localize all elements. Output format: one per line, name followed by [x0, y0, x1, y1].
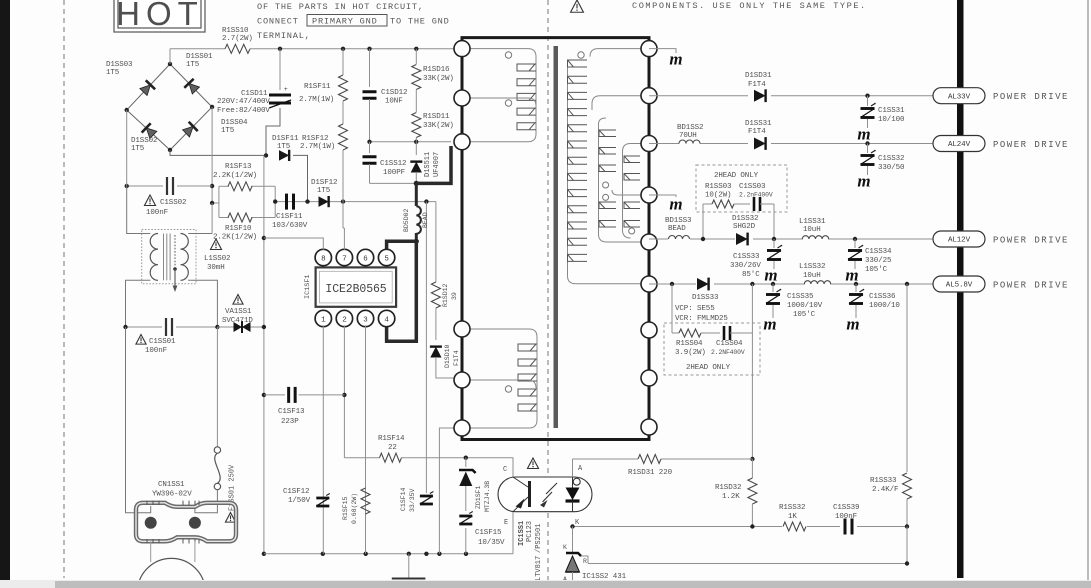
- secondary winding main: [568, 49, 650, 284]
- resistor R1SF12: [339, 124, 348, 150]
- secondary tap 195 wire: [612, 190, 649, 195]
- svg-text:R1SF15: R1SF15: [342, 496, 349, 520]
- resistor R1SS33: [903, 473, 912, 527]
- wire opto A up: [573, 459, 639, 477]
- choke arrow: [173, 235, 178, 292]
- wire sec top gnd: [649, 49, 676, 53]
- svg-text:D1SS32: D1SS32: [732, 215, 758, 223]
- label C1SF12: [283, 488, 311, 505]
- svg-text:2.2K(1/2W): 2.2K(1/2W): [213, 172, 257, 180]
- wire C1SS34: [854, 239, 856, 248]
- capacitor C1SS33: [767, 245, 782, 260]
- node drain hook: [414, 239, 419, 244]
- svg-text:2HEAD ONLY: 2HEAD ONLY: [686, 364, 731, 372]
- ground C1SS31: [857, 125, 870, 144]
- svg-text:6: 6: [363, 255, 368, 263]
- svg-text:D1SS02: D1SS02: [131, 137, 157, 145]
- svg-text:E: E: [504, 519, 508, 527]
- wire pin2 corner: [344, 457, 379, 459]
- wire AL33V rail: [649, 95, 936, 97]
- svg-text:OF THE PARTS IN HOT CIRCUIT,: OF THE PARTS IN HOT CIRCUIT,: [257, 2, 424, 12]
- transformer core: [554, 46, 559, 428]
- label F1SS01: [225, 464, 236, 522]
- svg-text:1000/10: 1000/10: [869, 302, 900, 310]
- svg-text:CONNECT: CONNECT: [257, 17, 299, 27]
- ground C1SS33: [764, 266, 777, 285]
- primary winding main: [462, 49, 536, 142]
- label R1SD31: [628, 469, 673, 477]
- warning triangle top center: [571, 0, 584, 12]
- wire C1SD12 top: [369, 49, 371, 87]
- label R1SF10: [213, 225, 257, 242]
- label R1SS04: [675, 340, 706, 357]
- svg-text:m: m: [857, 125, 870, 144]
- opto pin labels: [503, 465, 583, 527]
- svg-text:10NF: 10NF: [385, 98, 403, 106]
- svg-text:CN1SS1: CN1SS1: [158, 481, 185, 489]
- svg-text:R1SD16: R1SD16: [423, 66, 450, 74]
- svg-text:D1SS04: D1SS04: [221, 119, 248, 127]
- svg-text:SHG2D: SHG2D: [733, 223, 756, 231]
- label C1SS31: [878, 107, 905, 124]
- svg-text:C1SF13: C1SF13: [278, 408, 305, 416]
- svg-text:22: 22: [388, 444, 397, 452]
- inductor BD1SS2: [679, 140, 700, 144]
- label C1SS02: [144, 195, 186, 217]
- capacitor C1SS39: [845, 519, 852, 535]
- svg-text:D1SS01: D1SS01: [186, 53, 213, 61]
- resistor R1SF11: [339, 75, 348, 101]
- wire fuse to connector: [195, 490, 218, 513]
- wire C1SS12 bottom to drain: [370, 182, 417, 184]
- svg-text:1T5: 1T5: [221, 127, 235, 135]
- primary terminal y98: [454, 90, 470, 106]
- note text right: [632, 1, 867, 11]
- svg-text:R1SD12: R1SD12: [442, 283, 449, 307]
- thick wire pin4 hook: [387, 241, 417, 341]
- svg-text:10(2W): 10(2W): [705, 192, 731, 200]
- svg-text:C1SS02: C1SS02: [160, 199, 186, 207]
- svg-text:YW396-02V: YW396-02V: [152, 491, 192, 499]
- label D1S511: [424, 152, 441, 177]
- center isolation dashed separator: [547, 0, 549, 588]
- pin 4 circle: [378, 310, 394, 326]
- node C1SS01 ends: [123, 325, 219, 329]
- label D1SS03: [106, 61, 133, 77]
- svg-text:105'C: 105'C: [865, 266, 888, 274]
- inductor L1SS31: [802, 236, 828, 239]
- wire choke right bottom: [188, 280, 217, 327]
- hot side dashed separator: [63, 0, 65, 578]
- capacitor C1SS36: [849, 284, 864, 318]
- Rpair box sides: [219, 186, 275, 217]
- label L1SS02: [204, 239, 230, 272]
- svg-text:33/35V: 33/35V: [409, 488, 416, 512]
- svg-text:L1SS31: L1SS31: [799, 218, 826, 226]
- label C1SD11: [217, 90, 270, 115]
- svg-text:L1SS32: L1SS32: [799, 263, 825, 271]
- capacitor C1SD12: [363, 92, 377, 99]
- svg-text:C1SS36: C1SS36: [869, 293, 896, 301]
- ground tap2: [669, 195, 682, 214]
- diode D1SS32: [736, 233, 748, 246]
- wire left to connector: [126, 327, 151, 513]
- svg-text:1T5: 1T5: [131, 145, 145, 153]
- wire pin1 down: [322, 325, 324, 554]
- diode D1SS04: [181, 122, 197, 138]
- svg-text:1T5: 1T5: [106, 69, 120, 77]
- 2head box2: [664, 323, 760, 375]
- label R1SS03: [705, 183, 732, 200]
- bottom scrollbar track: [0, 580, 1091, 588]
- capacitor C1SS34: [848, 245, 863, 260]
- label power drive 1: [993, 92, 1069, 102]
- primary terminal y380: [454, 372, 470, 388]
- resistor R1SS04: [672, 329, 720, 337]
- thick wire pin5 hook: [387, 241, 417, 250]
- svg-text:LTV817: LTV817: [535, 556, 543, 581]
- note text line3: [257, 31, 311, 41]
- pin 2 circle: [336, 310, 352, 326]
- node drain junction: [414, 181, 419, 186]
- svg-text:R1SS04: R1SS04: [676, 340, 703, 348]
- wire vcc down to C1SF14: [425, 202, 427, 493]
- svg-text:C1SS32: C1SS32: [878, 155, 904, 163]
- label C1SF11: [272, 213, 308, 230]
- svg-text:C1SS31: C1SS31: [878, 107, 905, 115]
- svg-text:C1SD12: C1SD12: [381, 89, 407, 97]
- capacitor C1SD11: [269, 86, 291, 108]
- label C1SS12: [380, 160, 406, 177]
- node clamp mid: [367, 140, 418, 144]
- svg-text:1T5: 1T5: [277, 143, 291, 151]
- label BD1SS2: [677, 124, 703, 140]
- svg-text:1T5: 1T5: [317, 187, 331, 195]
- label power drive 4: [993, 281, 1069, 291]
- svg-text:D1SS33: D1SS33: [692, 294, 719, 302]
- node C1SS02 right: [210, 184, 214, 205]
- note text line2: [257, 15, 450, 27]
- warning triangle opto: [527, 458, 538, 469]
- wire R1SF12 to vcc line: [342, 150, 344, 202]
- svg-text:33K(2W): 33K(2W): [423, 75, 454, 83]
- svg-text:UF4007: UF4007: [433, 152, 441, 177]
- svg-text:100nF: 100nF: [835, 513, 857, 521]
- label IC1SF1 chip: [325, 283, 386, 296]
- wire D1SD10 to aux: [436, 357, 455, 378]
- label C1SS01: [136, 335, 176, 356]
- wire R1SF11-R1SF12: [342, 49, 344, 124]
- wire C1SS01 row: [126, 326, 218, 328]
- capacitor C1SS02: [167, 177, 173, 195]
- label R1SF11: [299, 83, 334, 104]
- label R1SF12: [300, 135, 335, 151]
- svg-text:POWER DRIVE: POWER DRIVE: [993, 140, 1069, 150]
- svg-text:D1SS03: D1SS03: [106, 61, 133, 69]
- svg-text:330/50: 330/50: [878, 164, 905, 172]
- svg-text:2.7M(1W): 2.7M(1W): [299, 96, 334, 104]
- capacitor C1SS03: [754, 197, 774, 211]
- svg-text:BD5D02: BD5D02: [403, 208, 410, 232]
- secondary terminal y95: [641, 88, 657, 104]
- wire C1SS32 gnd: [867, 166, 869, 175]
- diode D1S511: [410, 142, 422, 184]
- label IC1SS1: [518, 521, 543, 581]
- secondary terminal y242: [641, 234, 657, 250]
- svg-text:Free:82/400V: Free:82/400V: [217, 107, 270, 115]
- resistor R1SF14: [380, 453, 402, 462]
- wire C1SS35: [772, 284, 774, 292]
- bottom rail dots: [321, 552, 469, 556]
- label CN1SS1: [152, 481, 192, 499]
- label ZD1SF1: [475, 481, 491, 512]
- top DC rail: [170, 48, 462, 50]
- label D1SS01: [186, 53, 213, 69]
- secondary terminal y330: [641, 322, 657, 338]
- label D1SF12: [311, 179, 337, 195]
- label C1SS32: [878, 155, 905, 172]
- wire C1SS31 gnd: [867, 119, 869, 128]
- left black border strip: [0, 0, 10, 580]
- wire R1SF10 row: [219, 217, 275, 219]
- label C1SF14: [400, 487, 416, 512]
- label D1SS31: [745, 120, 772, 136]
- thick wire drain to xfmr: [416, 146, 451, 183]
- svg-text:+: +: [284, 86, 288, 93]
- primary terminal y48: [454, 41, 470, 57]
- svg-text:D1SF11: D1SF11: [272, 135, 299, 143]
- svg-text:L1SS02: L1SS02: [204, 255, 230, 263]
- diode D1SS03: [139, 80, 155, 96]
- svg-text:C1SF14: C1SF14: [400, 487, 407, 511]
- secondary terminal y284: [641, 276, 657, 292]
- resistor R1SD11: [412, 113, 421, 138]
- svg-text:PRIMARY GND: PRIMARY GND: [312, 17, 378, 27]
- svg-text:330/26V: 330/26V: [730, 262, 761, 270]
- svg-text:39: 39: [451, 292, 458, 300]
- label D1SS02: [131, 137, 157, 153]
- wire D1SF11 to vcc line: [293, 155, 308, 201]
- svg-text:10uH: 10uH: [803, 226, 821, 234]
- diode D1SS33: [697, 278, 709, 291]
- svg-text:0.68(2W): 0.68(2W): [351, 493, 358, 524]
- AL5.8V tag: [933, 276, 985, 292]
- wire C1SS34 gnd: [854, 261, 856, 269]
- wire ref line: [588, 527, 909, 566]
- choke center dot: [173, 267, 177, 271]
- svg-text:ZD1SF1: ZD1SF1: [475, 485, 482, 509]
- label L1SS31: [799, 218, 826, 234]
- label D1SS33: [675, 294, 728, 323]
- svg-text:AL12V: AL12V: [948, 237, 971, 245]
- resistor R1SD32: [748, 459, 757, 527]
- wire R1SF13 row: [219, 185, 275, 187]
- label BD1SS3: [665, 217, 692, 233]
- svg-text:33K(2W): 33K(2W): [423, 122, 454, 130]
- svg-text:ICE2B0565: ICE2B0565: [325, 283, 386, 296]
- svg-text:BD1SS2: BD1SS2: [677, 124, 703, 132]
- wire K feedback line: [573, 526, 908, 528]
- secondary inner winding A: [599, 118, 650, 242]
- primary gnd stub: [392, 554, 426, 579]
- node zener tap: [464, 456, 468, 460]
- label R1SD16: [423, 66, 454, 83]
- svg-text:R1SF12: R1SF12: [302, 135, 328, 143]
- svg-text:R1SS10: R1SS10: [222, 27, 249, 35]
- diode D1SD31: [754, 89, 766, 102]
- bead BD5D02: [416, 183, 421, 241]
- pin 1 circle: [315, 310, 331, 326]
- svg-text:VCP: SE55: VCP: SE55: [675, 305, 715, 313]
- wire choke right top: [188, 233, 212, 235]
- wire C1SF15 down: [465, 528, 467, 554]
- capacitor C1SF15: [459, 512, 473, 525]
- label power drive 3: [993, 236, 1069, 246]
- svg-text:R1SS32: R1SS32: [779, 504, 805, 512]
- svg-text:m: m: [857, 172, 870, 191]
- thick power rail bar: [957, 0, 964, 578]
- label D1SF11: [272, 135, 299, 151]
- svg-text:85'C: 85'C: [742, 271, 760, 279]
- svg-text:AL33V: AL33V: [948, 93, 971, 101]
- RTN junction dots: [262, 236, 266, 556]
- AL33V tag: [933, 88, 985, 104]
- label L1SS32: [799, 263, 825, 280]
- wire C1SD11 top: [279, 49, 281, 90]
- svg-text:R1SS33: R1SS33: [870, 477, 897, 485]
- resistor R1SF13: [228, 182, 252, 191]
- label BD5D02: [403, 208, 429, 232]
- transformer outline: [461, 38, 651, 440]
- node snub1 right: [772, 237, 776, 241]
- svg-text:POWER DRIVE: POWER DRIVE: [993, 281, 1069, 291]
- label C1SF13: [278, 408, 305, 426]
- svg-text:D1SD31: D1SD31: [745, 72, 772, 80]
- svg-text:2.2K(1/2W): 2.2K(1/2W): [213, 234, 257, 242]
- svg-text:m: m: [669, 50, 682, 69]
- label R1SD32: [715, 484, 741, 501]
- svg-text:F1T4: F1T4: [453, 350, 460, 366]
- svg-text:103/630V: 103/630V: [272, 222, 308, 230]
- svg-text:R1SF13: R1SF13: [225, 163, 252, 171]
- label R1SS10: [222, 27, 253, 43]
- wire pin3 down: [365, 325, 367, 554]
- svg-text:100nF: 100nF: [145, 347, 167, 355]
- capacitor C1SF14: [420, 492, 434, 505]
- label C1SF15: [475, 529, 505, 547]
- svg-text:R1SS03: R1SS03: [705, 183, 732, 191]
- pin 7 circle: [336, 249, 352, 265]
- label C1SS39: [833, 504, 859, 521]
- wire pin8 to RTN: [264, 238, 323, 250]
- wire choke left bottom: [126, 280, 151, 327]
- label C1SS33: [730, 253, 761, 279]
- svg-text:330/25: 330/25: [865, 257, 892, 265]
- AL12V tag: [933, 231, 985, 247]
- wire AC right to choke: [211, 203, 213, 234]
- svg-text:C: C: [503, 466, 507, 474]
- wire C1SS35 gnd: [772, 305, 774, 318]
- svg-text:AL5.8V: AL5.8V: [946, 282, 973, 290]
- svg-text:IC1SS2 431: IC1SS2 431: [582, 573, 627, 581]
- resistor R1SS03: [703, 200, 750, 208]
- label C1SS36: [869, 293, 900, 310]
- svg-text:TO THE GND: TO THE GND: [390, 17, 450, 27]
- svg-text:R1SF14: R1SF14: [378, 435, 405, 443]
- label C1SS35: [787, 293, 823, 319]
- diode D1SF11: [279, 150, 289, 161]
- ground C1SS36: [846, 315, 859, 334]
- wire R1SD12 to D1SD10: [435, 308, 437, 340]
- label C1SS03: [739, 183, 773, 199]
- wire pin2 down: [343, 325, 345, 458]
- vcc charge line: [275, 201, 436, 203]
- diode D1SF12: [319, 196, 329, 207]
- svg-text:BEAD: BEAD: [422, 212, 429, 228]
- choke core lines: [164, 234, 171, 281]
- right edge line: [1087, 0, 1089, 580]
- label D1SD31: [745, 72, 772, 89]
- note text line1: [257, 2, 424, 12]
- wire R1SD11 bottom: [415, 138, 417, 142]
- svg-text:K: K: [563, 544, 567, 551]
- wire left AC down: [126, 110, 128, 186]
- svg-text:C1SS12: C1SS12: [380, 160, 406, 168]
- label IC1SF1 ref: [304, 275, 312, 299]
- wire bridge bottom RTN: [170, 150, 266, 155]
- primary terminal y329: [454, 321, 470, 337]
- RTN vertical wire: [263, 155, 265, 553]
- HOT label box: [114, 0, 205, 32]
- node RTN junction: [264, 153, 268, 157]
- resistor R1SF15: [361, 488, 370, 514]
- svg-text:105'C: 105'C: [793, 311, 816, 319]
- wire C1SD11 bottom jog: [266, 108, 280, 155]
- svg-text:TERMINAL,: TERMINAL,: [257, 31, 311, 41]
- svg-text:1.2K: 1.2K: [722, 493, 740, 501]
- label C1SS34: [865, 248, 892, 274]
- svg-text:1: 1: [321, 316, 326, 324]
- rail junction dots: [278, 47, 419, 51]
- capacitor C1SF12: [316, 494, 330, 507]
- diode D1SS01: [184, 79, 200, 95]
- wire AL5.8V rail: [649, 283, 933, 285]
- svg-text:10/35V: 10/35V: [478, 539, 505, 547]
- svg-text:R: R: [583, 558, 587, 565]
- svg-text:C1SS39: C1SS39: [833, 504, 859, 512]
- svg-text:C1SF15: C1SF15: [475, 529, 502, 537]
- svg-text:/PS2501: /PS2501: [535, 524, 543, 553]
- svg-text:8: 8: [321, 255, 325, 263]
- ground C1SS35: [763, 315, 776, 334]
- svg-text:m: m: [669, 195, 682, 214]
- svg-text:2HEAD ONLY: 2HEAD ONLY: [714, 172, 759, 180]
- wire fb vertical 753: [751, 333, 753, 459]
- bridge wires: [127, 64, 212, 150]
- svg-text:R1SF11: R1SF11: [304, 83, 331, 91]
- svg-text:3.9(2W): 3.9(2W): [675, 349, 706, 357]
- bottom scrollbar thumb top layer: [55, 581, 1091, 588]
- node C1SS32 tap: [865, 141, 869, 145]
- svg-text:70UH: 70UH: [679, 132, 697, 140]
- wire C1SD12 bottom: [369, 99, 371, 142]
- svg-text:HOT: HOT: [116, 0, 204, 32]
- secondary terminal y48: [641, 41, 657, 57]
- svg-text:100nF: 100nF: [146, 209, 168, 217]
- wire bridge top to rail: [169, 49, 171, 64]
- choke dashed box: [142, 230, 196, 284]
- svg-text:AL24V: AL24V: [948, 141, 971, 149]
